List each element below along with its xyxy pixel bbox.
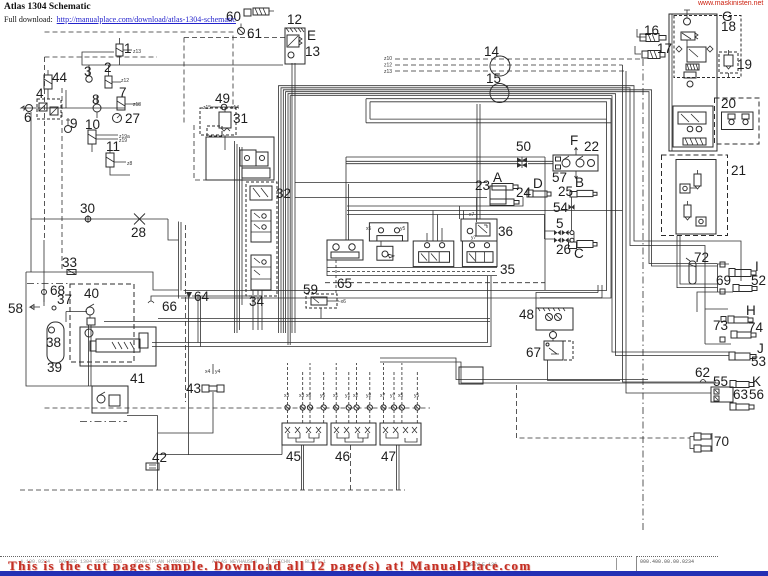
pump 40 — [86, 304, 95, 325]
footer gray small text — [470, 562, 497, 568]
wire line to valve F — [528, 163, 553, 165]
wire corner at valve 1 — [82, 52, 114, 65]
connector 16 — [640, 34, 666, 42]
wire bundle line B2 — [281, 88, 705, 333]
wire stack risers a — [234, 141, 236, 333]
wire dashed pilot line z12 top — [395, 64, 623, 66]
wire 48 feed b — [540, 297, 602, 299]
wire dash-dot pump enclosure bottom — [80, 421, 127, 423]
manifold block under 31 — [206, 137, 274, 180]
wire 16 17 stubs — [635, 29, 646, 54]
connector B plug — [570, 190, 597, 197]
coupling 60 — [244, 8, 274, 16]
svg-text:z12: z12 — [384, 63, 392, 69]
valve 3 — [86, 65, 92, 82]
wire valve36 feed b — [479, 104, 481, 219]
wire 69 to 73 link — [697, 292, 718, 312]
wire dashed boundary to E — [184, 38, 285, 126]
svg-text:1: 1 — [124, 41, 132, 56]
wire port line 1 — [347, 197, 523, 206]
svg-text:x3: x3 — [299, 393, 305, 399]
wire return line C1 big box — [181, 99, 611, 298]
fitting 33 — [67, 270, 76, 275]
svg-text:20: 20 — [721, 96, 736, 111]
wire dashed drop 185 — [185, 225, 187, 402]
bowtie symbol 50 — [517, 157, 527, 169]
svg-text:x2: x2 — [353, 393, 359, 399]
relief valve 19 — [719, 50, 738, 77]
wire bundle line B1 to H bracket — [279, 86, 742, 333]
svg-text:36: 36 — [498, 224, 513, 239]
solenoid bank 47 — [380, 423, 421, 445]
pump unit 4 — [37, 99, 61, 119]
coupling 61 — [238, 24, 245, 35]
valve 11 — [106, 147, 130, 175]
wire center box top edge — [346, 156, 545, 158]
svg-text:25: 25 — [558, 184, 573, 199]
pilot stubs down to banks — [288, 410, 418, 423]
bracket 69 — [718, 262, 734, 294]
wire E riser pair a — [291, 63, 293, 333]
drain 42 — [146, 463, 159, 470]
svg-text:49: 49 — [215, 91, 230, 106]
svg-text:A: A — [493, 170, 502, 185]
svg-text:57: 57 — [552, 170, 567, 185]
wire dashed lower boundary — [20, 489, 405, 491]
svg-text:6: 6 — [24, 110, 32, 125]
svg-text:56: 56 — [749, 387, 764, 402]
svg-text:37: 37 — [57, 292, 72, 307]
footer blue bar — [0, 571, 768, 576]
svg-text:70: 70 — [714, 434, 729, 449]
wire center box left edge b — [348, 184, 350, 240]
wire dashed boundary top — [45, 56, 158, 58]
svg-text:x7: x7 — [380, 393, 386, 399]
svg-text:y5: y5 — [400, 226, 406, 232]
svg-text:69: 69 — [716, 273, 731, 288]
valve 59 — [306, 294, 339, 308]
wire 64 drop pair b — [200, 296, 202, 347]
hook symbol 66 — [148, 296, 188, 303]
svg-text:5: 5 — [556, 216, 564, 231]
wire dashed pilot line z10 top — [395, 58, 643, 60]
svg-text:x5: x5 — [366, 226, 372, 232]
svg-text:12: 12 — [287, 12, 302, 27]
connector I plug — [729, 269, 756, 277]
svg-text:43: 43 — [186, 381, 201, 396]
svg-text:72: 72 — [694, 250, 709, 265]
valve 10 — [88, 130, 118, 152]
svg-text:13: 13 — [305, 44, 320, 59]
pilot circles bank46 — [334, 405, 373, 410]
motor block 41 — [80, 327, 156, 366]
wire dashed boundary inner — [61, 88, 63, 270]
svg-text:42: 42 — [152, 450, 167, 465]
connector D plug — [527, 190, 551, 197]
wire to connector A lower — [295, 197, 487, 199]
header title — [4, 2, 91, 12]
svg-text:y7: y7 — [471, 235, 477, 241]
wire dashed to connector 70 — [517, 385, 691, 438]
svg-text:65: 65 — [337, 276, 352, 291]
svg-text:11: 11 — [106, 139, 120, 154]
svg-text:x3: x3 — [284, 393, 290, 399]
svg-text:21: 21 — [731, 163, 746, 178]
wire long return a — [158, 318, 490, 320]
svg-text:y7: y7 — [390, 393, 396, 399]
svg-text:30: 30 — [80, 201, 95, 216]
dashed boundary near 31 — [194, 125, 206, 180]
solenoid bank 45 — [282, 423, 327, 445]
header download line — [4, 15, 236, 24]
wire bank46 drop dashed — [350, 445, 352, 490]
svg-text:58: 58 — [8, 301, 23, 316]
wire center box left edge — [345, 157, 347, 240]
valve 67 — [544, 341, 573, 360]
wire dashed upper boundary — [45, 32, 234, 107]
connector J plug — [729, 352, 756, 360]
wire 5 bowties to C — [545, 231, 578, 242]
svg-text:y6: y6 — [320, 393, 326, 399]
bank 35 left module — [369, 223, 408, 260]
pilot valve 49 — [210, 104, 238, 110]
pilot circles bank47 — [381, 405, 420, 410]
wire suction line 30 — [31, 218, 168, 220]
svg-text:z10: z10 — [384, 56, 392, 62]
connector H plug — [728, 316, 753, 323]
svg-text:61: 61 — [247, 26, 262, 41]
wire bottom right pair a — [380, 358, 648, 380]
svg-text:z15: z15 — [203, 105, 211, 111]
wire 64 line right — [192, 295, 250, 297]
main control valve in G — [673, 106, 713, 147]
svg-text:53: 53 — [751, 354, 766, 369]
svg-text:B: B — [575, 175, 584, 190]
bracket 73 — [705, 309, 731, 344]
bank 35 main body — [413, 241, 497, 267]
wire 48 riser a — [597, 285, 599, 293]
svg-text:47: 47 — [381, 449, 396, 464]
svg-text:z8: z8 — [127, 161, 133, 167]
svg-text:3: 3 — [84, 64, 92, 79]
wire bundle line B3 to connector I — [283, 90, 717, 333]
wire tank line 33 — [26, 272, 179, 290]
number labels — [8, 9, 766, 465]
svg-text:10: 10 — [85, 117, 100, 132]
valve 36 — [461, 219, 497, 241]
svg-text:x1: x1 — [333, 393, 339, 399]
gauge 27 — [113, 114, 122, 123]
wire stack risers c — [239, 147, 241, 330]
svg-text:59: 59 — [303, 282, 318, 297]
orifice pair 5 — [554, 230, 574, 243]
svg-text:x5: x5 — [398, 393, 404, 399]
node symbol 30 — [84, 215, 92, 223]
connector 70 plugs — [690, 433, 712, 452]
wire pump risers — [89, 325, 92, 386]
wire bundle line B6 to connector J upper — [290, 96, 729, 352]
wire 59 stub — [320, 308, 322, 319]
svg-text:73: 73 — [713, 318, 728, 333]
connector C plug — [569, 241, 598, 249]
wire 67 drain — [548, 360, 621, 380]
svg-text:40: 40 — [84, 286, 99, 301]
port z13 of valve 1 — [123, 49, 132, 51]
valve 44 — [44, 70, 52, 99]
wire main supply y108 — [25, 107, 125, 109]
wire from 28 corner down — [168, 219, 179, 240]
wire G drop pair a — [677, 236, 718, 288]
svg-text:15: 15 — [486, 71, 501, 86]
orifice 54 — [569, 204, 575, 210]
svg-text:22: 22 — [584, 139, 599, 154]
wire line y65 to valve E — [92, 64, 283, 66]
wire stack risers d — [241, 147, 243, 305]
svg-text:y1: y1 — [345, 393, 351, 399]
valve block F 22 — [553, 148, 598, 179]
svg-text:F: F — [570, 133, 578, 148]
svg-text:x7: x7 — [469, 212, 475, 218]
svg-text:24: 24 — [516, 185, 532, 200]
wire 48 feed — [536, 293, 598, 309]
junction box 63 — [711, 387, 733, 402]
filter 72 — [686, 258, 696, 284]
svg-text:y4: y4 — [215, 369, 221, 375]
wire port line 2 — [347, 210, 623, 212]
pilot circles bank45 — [285, 405, 326, 410]
svg-text:18: 18 — [721, 19, 736, 34]
wire big box left edge inner — [180, 222, 182, 291]
dashed enclosure 40 — [70, 284, 134, 362]
stack valve section d 34 — [251, 255, 271, 290]
accumulator 38 — [47, 322, 64, 363]
svg-text:16: 16 — [644, 23, 659, 38]
wire return line C2 big box inner — [184, 102, 607, 291]
wire E riser pair b — [294, 63, 296, 333]
connector A plug upper — [490, 184, 518, 205]
svg-text:38: 38 — [46, 335, 61, 350]
drain 37 — [52, 306, 56, 310]
svg-text:64: 64 — [194, 289, 210, 304]
svg-text:-x6: -x6 — [339, 299, 346, 305]
bank 35 pilot stubs — [427, 206, 464, 241]
wire bundle line B5 to connector J — [288, 94, 729, 356]
wire dash-dot boundary left — [27, 283, 70, 285]
svg-text:y2: y2 — [366, 393, 372, 399]
wire long return b — [104, 321, 490, 323]
svg-text:9: 9 — [70, 116, 78, 131]
svg-text:8: 8 — [92, 92, 100, 107]
wire left margin line — [43, 240, 45, 306]
wire tank long line bottom — [158, 445, 282, 455]
svg-text:28: 28 — [131, 225, 146, 240]
svg-text:z13: z13 — [133, 49, 141, 55]
svg-text:19: 19 — [737, 57, 752, 72]
wire dashed pilot line z13 top — [395, 70, 626, 72]
wire stack drains — [253, 290, 262, 330]
wire pair to pump41 b — [152, 276, 491, 347]
wire bank47 drop a — [396, 445, 398, 490]
stack valve section b — [250, 186, 272, 200]
svg-text:39: 39 — [47, 360, 62, 375]
svg-text:E: E — [307, 28, 316, 43]
pump 8 — [93, 96, 101, 118]
svg-text:7: 7 — [119, 85, 127, 100]
wire 64 drop line — [188, 296, 190, 455]
wire bank45 drop a — [301, 445, 303, 490]
footer title block right box — [636, 556, 718, 572]
svg-text:46: 46 — [335, 449, 350, 464]
wire pressure line y160 — [346, 161, 553, 163]
wire left riser to pump group — [30, 112, 32, 272]
svg-text:26: 26 — [556, 242, 571, 257]
wire port line 3 — [347, 215, 545, 232]
svg-text:y5: y5 — [414, 393, 420, 399]
svg-text:50: 50 — [516, 139, 531, 154]
node junction 66top — [65, 90, 67, 108]
svg-text:74: 74 — [748, 320, 764, 335]
wire to 63 box — [626, 71, 711, 393]
triangle node 64 — [186, 292, 192, 298]
svg-text:67: 67 — [526, 345, 541, 360]
wire G drop pair b — [680, 236, 718, 285]
svg-text:62: 62 — [695, 365, 710, 380]
svg-text:H: H — [746, 303, 756, 318]
wire bank45 drop b — [303, 445, 305, 490]
circle symbol 15 — [490, 84, 509, 103]
svg-text:14: 14 — [484, 44, 500, 59]
tiny port labels — [119, 49, 477, 399]
svg-text:z12: z12 — [121, 78, 129, 84]
svg-text:35: 35 — [500, 262, 515, 277]
svg-text:4: 4 — [36, 86, 44, 101]
valve 1 — [116, 38, 123, 65]
svg-text:63: 63 — [733, 387, 748, 402]
connector 55 plug — [730, 381, 754, 388]
svg-text:17: 17 — [657, 41, 672, 56]
wire 38 drop — [66, 312, 87, 323]
svg-text:2: 2 — [104, 60, 112, 75]
wire dashed system boundary left — [44, 57, 46, 240]
wire dashed boundary bottom run — [45, 407, 431, 409]
wire bank47 drop b — [398, 445, 400, 490]
wire 43 return — [158, 392, 213, 433]
valve stack 32 dashed enclosure — [246, 182, 277, 296]
wire dash-dot vertical from z10 line — [642, 59, 644, 530]
wire A connector stub — [476, 198, 478, 223]
connector A plug lower — [490, 199, 519, 206]
connector 17 — [642, 51, 665, 59]
svg-text:34: 34 — [249, 294, 265, 309]
svg-text:31: 31 — [233, 111, 248, 126]
hook 62 — [700, 380, 706, 383]
svg-text:x6: x6 — [306, 393, 312, 399]
svg-text:41: 41 — [130, 371, 145, 386]
wire big box left edge — [178, 222, 180, 299]
wire stack risers b — [236, 144, 238, 333]
valve 7 — [117, 97, 140, 110]
footer dotted rule — [0, 556, 632, 557]
wire bundle line B4 to filter 72 — [286, 92, 718, 333]
closed valve X 28 — [134, 214, 145, 225]
block 20 — [715, 98, 760, 144]
valve block 48 — [536, 308, 573, 330]
connector 43 plugs — [202, 364, 224, 392]
gauge 9 — [65, 118, 72, 133]
svg-text:C: C — [574, 246, 584, 261]
wire 65 drop dashed — [335, 260, 337, 294]
valve 2 — [105, 65, 121, 88]
svg-text:44: 44 — [52, 70, 68, 85]
valve 31 — [200, 107, 236, 150]
wire pair to pump41 a — [152, 276, 488, 343]
wire 48 riser b — [601, 285, 603, 298]
solenoid bank 46 — [331, 423, 376, 445]
wire B plug drop — [571, 197, 573, 232]
stack valve section c — [251, 210, 271, 242]
connector 74 plug — [731, 331, 756, 338]
svg-text:54: 54 — [553, 200, 569, 215]
svg-text:D: D — [533, 176, 543, 191]
wire 62 line to K — [623, 65, 717, 382]
motor 48-67 link — [550, 330, 557, 341]
svg-text:45: 45 — [286, 449, 301, 464]
connector 56 plug — [730, 403, 754, 410]
rail bottom of bank 35 — [327, 260, 497, 276]
circle symbol 14 — [490, 56, 510, 76]
wire to connector A upper — [295, 182, 487, 184]
footer red text — [20, 559, 326, 565]
block 21 — [662, 155, 728, 236]
wire pump outlet to tank drop — [127, 415, 158, 417]
svg-text:I: I — [755, 259, 759, 274]
wire lower-left box — [26, 272, 92, 386]
svg-text:52: 52 — [751, 273, 766, 288]
wire valve36 feed a — [476, 104, 478, 219]
svg-text:z13: z13 — [384, 69, 392, 75]
svg-text:z18: z18 — [133, 102, 141, 108]
svg-text:z19: z19 — [119, 138, 127, 144]
svg-text:48: 48 — [519, 307, 534, 322]
pump block G — [669, 10, 741, 151]
svg-text:x14: x14 — [231, 105, 239, 111]
wire 64 drop pair a — [197, 296, 199, 343]
pilot valve E 12 — [285, 28, 305, 64]
wire center box right edge — [544, 157, 546, 290]
pump block below 41 — [92, 386, 128, 413]
svg-text:66: 66 — [162, 299, 177, 314]
wire dash boundary under rail — [325, 282, 545, 284]
svg-text:33: 33 — [62, 255, 77, 270]
svg-text:27: 27 — [125, 111, 140, 126]
wire bottom right pair b — [380, 362, 720, 383]
gauge 6 — [21, 105, 33, 112]
connector 52 plug — [733, 285, 757, 292]
small box above bank47 — [459, 367, 483, 384]
accumulator block 65 — [327, 240, 363, 260]
wire tank drop 42 — [157, 416, 159, 491]
svg-text:23: 23 — [475, 178, 490, 193]
svg-text:x4: x4 — [205, 369, 211, 375]
pilot stubs up from circles — [288, 363, 418, 405]
breather 68 — [42, 290, 47, 303]
svg-text:55: 55 — [713, 374, 728, 389]
arrow 58 — [30, 305, 40, 310]
svg-text:32: 32 — [276, 186, 291, 201]
watermark top right — [698, 0, 763, 7]
